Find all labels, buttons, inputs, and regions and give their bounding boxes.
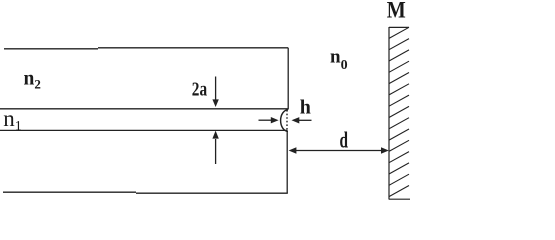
svg-text:d: d: [340, 127, 349, 152]
svg-text:h: h: [300, 97, 311, 119]
arrow pointing left at bump (right h arrow): [292, 117, 312, 123]
wire core top boundary n1/n2: [0, 108, 288, 110]
wire core bottom boundary n1/n2: [0, 129, 287, 131]
svg-text:n2: n2: [24, 68, 41, 91]
mirror M hatched body: [389, 27, 410, 200]
dotted flat end face line across core: [286, 110, 288, 131]
mirror bottom edge: [389, 198, 410, 200]
mirror left (reflecting) edge: [388, 27, 390, 200]
arrow 2a top (down): [212, 77, 218, 108]
wire fiber cladding top edge right segment: [98, 47, 288, 49]
arrow 2a bottom (up): [212, 131, 218, 164]
wire fiber cladding top edge left segment: [4, 48, 98, 50]
svg-text:M: M: [387, 0, 406, 23]
wire fiber cladding bottom edge right segment: [136, 192, 288, 194]
dimension arrow d (double headed): [289, 147, 389, 153]
bump arc on fiber end face (height h): [281, 110, 288, 132]
wire fiber cladding bottom edge left segment: [3, 191, 136, 193]
svg-text:n0: n0: [330, 47, 348, 73]
mirror top edge: [389, 26, 409, 28]
wire fiber end face upper segment: [287, 48, 289, 110]
mirror hatching: [389, 27, 409, 196]
arrow pointing right at bump (left h arrow): [259, 117, 279, 123]
wire fiber end face lower segment: [286, 130, 288, 193]
svg-text:2a: 2a: [192, 78, 207, 100]
svg-text:n1: n1: [3, 106, 22, 134]
